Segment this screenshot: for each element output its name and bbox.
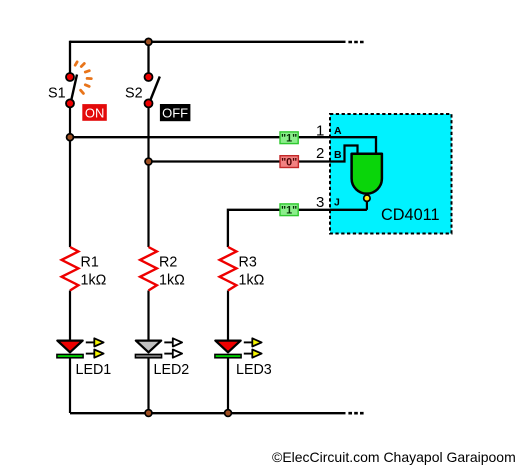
junction top rail / S2 (145, 38, 152, 45)
wire bottom rail continuation dots (348, 412, 364, 415)
wire LED2 to bottom rail (147, 358, 149, 413)
svg-text:ON: ON (85, 106, 105, 121)
junction bottom rail / LED2 (145, 410, 152, 417)
svg-text:©ElecCircuit.com Chayapol Gara: ©ElecCircuit.com Chayapol Garaipoom (272, 449, 516, 465)
svg-text:"1": "1" (281, 133, 297, 145)
wire R2 to LED2 (147, 291, 149, 341)
wire S1 column to R1 (69, 137, 71, 247)
svg-text:CD4011: CD4011 (381, 206, 440, 224)
LED3 anode triangle (215, 341, 240, 353)
LED1 light arrow upper (86, 338, 104, 346)
node "0" input B (280, 156, 298, 169)
switch S2 bottom contact (145, 99, 153, 107)
wire LED3 to bottom rail (227, 358, 229, 413)
switch S1 bottom contact (66, 99, 74, 107)
LED2 anode triangle (136, 341, 161, 353)
wire S2 column to R2 (147, 162, 149, 248)
resistor R1 (62, 247, 79, 291)
svg-text:LED1: LED1 (76, 362, 112, 378)
LED1 cathode bar (57, 354, 83, 357)
junction row2 / S2 (145, 158, 152, 165)
svg-text:LED2: LED2 (154, 362, 190, 378)
LED3 light arrow lower (244, 350, 262, 358)
LED3 light arrow upper (244, 338, 262, 346)
svg-text:R2: R2 (159, 255, 177, 271)
svg-text:S2: S2 (125, 85, 143, 101)
label OFF (160, 104, 191, 121)
svg-text:2: 2 (316, 145, 324, 162)
LED2 light arrow lower (164, 350, 182, 358)
NAND gate body (352, 154, 382, 194)
wire R1 to LED1 (69, 291, 71, 341)
label ON (82, 104, 107, 121)
node "1" output J (280, 204, 298, 217)
junction bottom rail / LED3 (225, 410, 232, 417)
wire gate output stem (366, 201, 368, 210)
wire R3 to LED3 (227, 291, 229, 341)
switch S1 top contact (66, 73, 74, 81)
switch S2 top contact (145, 73, 153, 81)
NAND gate inversion bubble (364, 195, 370, 201)
svg-text:1: 1 (316, 122, 324, 139)
svg-text:R1: R1 (81, 255, 99, 271)
wire top rail continuation dots (348, 41, 364, 44)
svg-text:1kΩ: 1kΩ (159, 272, 185, 288)
wire bottom rail (70, 412, 346, 414)
switch S2 lever (149, 77, 160, 104)
wire S1 upper stub (69, 41, 71, 78)
svg-text:J: J (334, 196, 340, 208)
wire top rail (70, 41, 346, 43)
switch S1 motion arc (75, 62, 91, 94)
wire S2 lower stub (147, 103, 149, 162)
wire row 3 from gate output (228, 210, 367, 247)
svg-text:3: 3 (316, 194, 324, 211)
LED1 anode triangle (57, 341, 82, 353)
IC box U1 CD4011 (330, 114, 452, 234)
LED1 light arrow lower (86, 350, 104, 358)
wire LED1 to bottom rail (69, 358, 71, 413)
svg-text:A: A (334, 125, 342, 137)
LED2 cathode bar (135, 354, 161, 357)
LED3 cathode bar (215, 354, 241, 357)
svg-text:S1: S1 (48, 85, 66, 101)
junction row1 / S1 (67, 134, 74, 141)
svg-text:LED3: LED3 (236, 362, 272, 378)
svg-text:"1": "1" (281, 205, 297, 217)
node "1" input A (280, 132, 298, 145)
wire S1 lower stub (69, 103, 71, 137)
svg-text:B: B (334, 149, 342, 161)
svg-text:"0": "0" (281, 156, 297, 168)
resistor R3 (220, 247, 237, 291)
svg-text:OFF: OFF (162, 106, 188, 121)
svg-text:1kΩ: 1kΩ (239, 272, 265, 288)
switch S1 lever (71, 75, 78, 104)
wire row 2 to gate input B (149, 146, 358, 162)
wire S2 upper stub (147, 42, 149, 78)
svg-text:1kΩ: 1kΩ (81, 272, 107, 288)
wire row 1 to gate input A (70, 137, 376, 153)
LED2 light arrow upper (164, 338, 182, 346)
svg-text:R3: R3 (239, 255, 257, 271)
resistor R2 (140, 247, 157, 291)
